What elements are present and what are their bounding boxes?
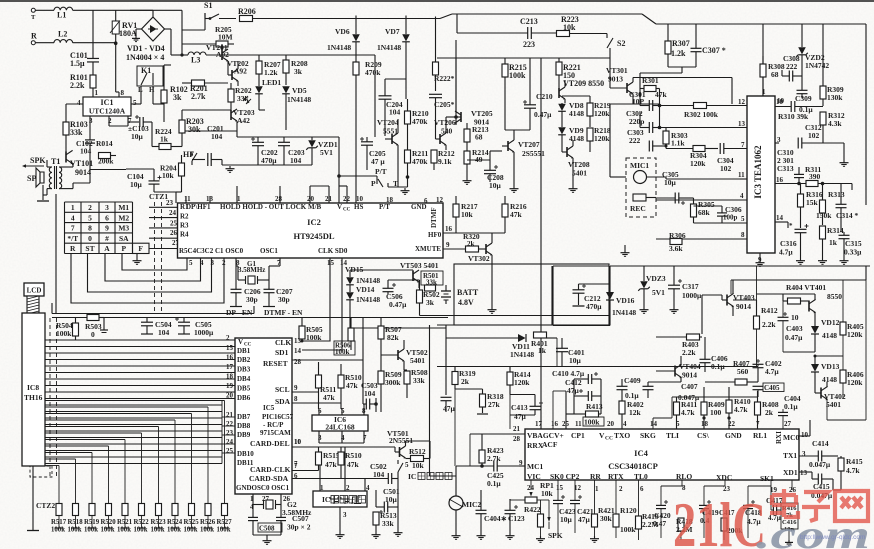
svg-text:9: 9 xyxy=(294,384,298,392)
wire pin26 xyxy=(791,480,793,490)
resistor R408 2k xyxy=(755,402,761,415)
svg-text:IC5: IC5 xyxy=(263,404,275,412)
ground xyxy=(822,258,824,261)
svg-text:DB10: DB10 xyxy=(237,450,254,458)
capacitor C408 47u xyxy=(441,396,452,398)
svg-text:3.6k: 3.6k xyxy=(669,244,683,253)
wire xyxy=(66,103,83,105)
resistor R120 100k xyxy=(613,514,619,527)
ground xyxy=(397,530,399,533)
svg-text:7: 7 xyxy=(71,224,75,233)
svg-text:R4: R4 xyxy=(180,231,189,239)
diode VD9 4148 xyxy=(558,127,566,134)
wire IC2 pin14 to IC5 SD1 xyxy=(302,258,342,350)
wire keypad col R to IC2 pin2 loop xyxy=(71,254,224,304)
svg-text:9014: 9014 xyxy=(736,302,751,311)
svg-text:470k: 470k xyxy=(412,117,428,126)
svg-text:200k: 200k xyxy=(98,157,114,166)
wire MIC line xyxy=(430,475,457,477)
resistor R312 4.3k xyxy=(820,112,826,125)
svg-text:21lC: 21lC xyxy=(673,489,766,549)
wire keypad col P to IC2 pin5 loop xyxy=(122,254,187,271)
wire MC0 to right xyxy=(799,435,810,437)
ground keypad F column xyxy=(136,254,138,259)
svg-text:300k: 300k xyxy=(385,378,401,387)
svg-text:1N4148: 1N4148 xyxy=(377,43,401,52)
capacitor C208 10u xyxy=(484,169,496,171)
svg-text:C404∗: C404∗ xyxy=(484,514,507,523)
svg-text:10: 10 xyxy=(791,313,799,322)
resistor R418 2.2M xyxy=(678,518,684,531)
svg-text:47 μ: 47 μ xyxy=(371,157,385,166)
wire IC2 pin11 stub xyxy=(185,196,187,203)
svg-text:CP1: CP1 xyxy=(571,431,585,440)
svg-text:VD12: VD12 xyxy=(821,318,840,327)
svg-text:F: F xyxy=(138,244,143,253)
svg-text:10P: 10P xyxy=(632,97,645,106)
capacitor C505 1000u xyxy=(178,321,190,323)
resistor R210 470k xyxy=(405,111,411,124)
svg-text:47k: 47k xyxy=(325,460,338,469)
capacitor C204 104 xyxy=(379,95,392,97)
svg-text:5401: 5401 xyxy=(410,356,425,365)
svg-text:4.7μ: 4.7μ xyxy=(779,248,793,257)
svg-text:C407: C407 xyxy=(681,382,698,391)
ground xyxy=(572,186,574,189)
wire socket pin3 xyxy=(339,507,341,532)
ground xyxy=(513,186,515,189)
resistor R502 3k xyxy=(417,290,423,303)
wire xyxy=(131,103,141,105)
capacitor C315 0.33u xyxy=(839,234,850,236)
svg-text:RR: RR xyxy=(590,472,601,481)
svg-text:68k: 68k xyxy=(698,208,711,217)
svg-text:TX1: TX1 xyxy=(783,451,797,460)
svg-text:100k: 100k xyxy=(335,348,350,356)
wire IC3 pin14 xyxy=(775,221,788,223)
svg-text:HS: HS xyxy=(354,203,363,211)
svg-text:C405: C405 xyxy=(764,384,780,392)
svg-text:1k: 1k xyxy=(538,346,547,355)
svg-text:1: 1 xyxy=(71,203,75,212)
svg-text:A42: A42 xyxy=(237,116,250,125)
svg-text:ST: ST xyxy=(85,244,94,253)
svg-text:0: 0 xyxy=(88,234,92,243)
svg-text:MC0: MC0 xyxy=(783,433,799,442)
svg-text:CARD-CLK: CARD-CLK xyxy=(250,465,291,474)
svg-text:L1: L1 xyxy=(57,11,66,20)
wire IC4 bottom pins xyxy=(530,480,532,483)
svg-text:47μ: 47μ xyxy=(443,404,456,413)
IC card socket glyphs xyxy=(330,496,338,504)
svg-text:P/T: P/T xyxy=(375,167,387,176)
svg-text:30p: 30p xyxy=(246,295,258,304)
wire xyxy=(92,10,94,57)
svg-text:2S5551: 2S5551 xyxy=(522,149,545,158)
svg-text:DP\HF1: DP\HF1 xyxy=(186,203,211,211)
svg-text:CC: CC xyxy=(605,436,613,442)
svg-text:GNDOSC0 OSC1: GNDOSC0 OSC1 xyxy=(236,484,290,492)
wire CARD-CLK xyxy=(292,470,319,472)
wire xyxy=(455,40,457,117)
svg-text:IC4: IC4 xyxy=(634,448,648,458)
ground xyxy=(375,532,377,535)
svg-text:S2: S2 xyxy=(617,39,625,48)
capacitor C316 4.7u xyxy=(795,228,807,230)
svg-text:10k: 10k xyxy=(541,489,554,498)
resistor R213 68 xyxy=(466,123,468,129)
svg-text:1N4148: 1N4148 xyxy=(356,276,380,285)
svg-text:10k: 10k xyxy=(162,171,175,180)
diode VD16 1N4148 xyxy=(606,292,614,300)
transistor VT208 5401 xyxy=(566,147,568,157)
svg-text:R413: R413 xyxy=(586,402,603,411)
svg-text:21: 21 xyxy=(513,425,521,433)
wire xyxy=(668,66,696,68)
svg-text:33k: 33k xyxy=(413,376,426,385)
svg-text:1N4148: 1N4148 xyxy=(356,295,380,304)
resistor R101 2.2k xyxy=(90,75,96,88)
svg-text:4148: 4148 xyxy=(569,134,584,143)
ground xyxy=(673,307,675,310)
svg-text:5: 5 xyxy=(189,259,193,267)
resistor R214 49 xyxy=(464,151,470,164)
svg-text:3: 3 xyxy=(105,203,109,212)
svg-text:68: 68 xyxy=(475,133,483,142)
svg-text:C410 4.7μ: C410 4.7μ xyxy=(552,369,585,378)
svg-text:R523: R523 xyxy=(151,519,167,526)
svg-text:C409: C409 xyxy=(624,376,641,385)
svg-text:10: 10 xyxy=(801,431,809,439)
svg-text:CSC34018CP: CSC34018CP xyxy=(608,461,658,471)
wire pin25 xyxy=(565,428,567,430)
ground xyxy=(266,538,268,541)
wire xyxy=(219,18,236,20)
svg-text:CTZ2: CTZ2 xyxy=(36,501,55,510)
resistor R221 150 xyxy=(556,62,562,75)
wire xyxy=(181,10,183,55)
resistor R406 120k xyxy=(840,370,846,383)
diode VD5 1N4148 xyxy=(282,86,290,93)
resistor R305 68k xyxy=(691,204,697,217)
svg-text:1N4148: 1N4148 xyxy=(510,350,534,359)
svg-text:104: 104 xyxy=(290,156,302,165)
transistor VT404 9014 xyxy=(674,366,676,377)
svg-text:REC: REC xyxy=(630,204,646,213)
capacitor C202 470u xyxy=(252,141,264,143)
svg-text:5V1: 5V1 xyxy=(320,148,333,157)
svg-text:5: 5 xyxy=(133,99,137,107)
svg-text:R: R xyxy=(70,244,76,253)
resistor R505 100k xyxy=(299,326,305,339)
svg-text:10k: 10k xyxy=(461,210,474,219)
svg-text:12: 12 xyxy=(738,98,746,106)
svg-text:1N4148: 1N4148 xyxy=(287,95,311,104)
svg-text:47μ: 47μ xyxy=(567,386,580,395)
svg-text:68: 68 xyxy=(771,70,779,79)
svg-text:5V1: 5V1 xyxy=(652,288,665,297)
svg-text:SD1: SD1 xyxy=(275,348,289,357)
svg-text:IC: IC xyxy=(322,495,330,504)
resistor R513 33k xyxy=(373,512,379,525)
ground xyxy=(788,540,790,542)
resistor R416 C416 xyxy=(781,503,798,529)
svg-text:11: 11 xyxy=(738,171,745,179)
svg-text:28: 28 xyxy=(513,435,521,443)
svg-text:R222*: R222* xyxy=(434,74,455,83)
svg-text:1: 1 xyxy=(237,195,241,203)
resistor R217 10k xyxy=(453,204,459,217)
svg-text:CS\: CS\ xyxy=(697,431,710,440)
svg-text:R302 100k: R302 100k xyxy=(684,110,719,119)
ground xyxy=(136,28,142,30)
svg-text:*/T: */T xyxy=(67,234,78,243)
svg-text:C309: C309 xyxy=(795,94,812,103)
svg-text:14: 14 xyxy=(776,214,784,222)
svg-text:47k: 47k xyxy=(655,90,668,99)
capacitor C415 0.047u xyxy=(817,474,819,485)
ground xyxy=(594,536,596,539)
svg-text:C508: C508 xyxy=(259,525,275,533)
svg-text:R526: R526 xyxy=(200,519,216,526)
wire xyxy=(43,194,47,196)
svg-text:6: 6 xyxy=(640,485,644,493)
svg-text:VBAGCV+: VBAGCV+ xyxy=(527,431,564,440)
svg-text:0.047μ: 0.047μ xyxy=(809,460,831,469)
ground xyxy=(339,532,341,535)
svg-text:4: 4 xyxy=(740,192,744,200)
ground xyxy=(509,533,511,536)
resistor R415 4.7k xyxy=(838,458,844,471)
wire xyxy=(237,136,339,138)
svg-text:5401: 5401 xyxy=(826,400,841,409)
resistor R316 15k xyxy=(798,194,804,207)
svg-text:R518: R518 xyxy=(68,519,84,526)
wire IC3 pin10 to C309 xyxy=(774,106,776,108)
svg-text:6: 6 xyxy=(424,197,428,205)
svg-text:0.1μ: 0.1μ xyxy=(487,479,501,488)
svg-text:20: 20 xyxy=(607,420,615,428)
watermark chinese dian xyxy=(770,489,798,517)
wire xyxy=(236,121,238,131)
wire IC2 pin13 stub xyxy=(209,196,211,203)
svg-text:SPK: SPK xyxy=(30,156,46,165)
svg-text:ACF: ACF xyxy=(542,440,558,449)
svg-text:XMUTE: XMUTE xyxy=(415,245,441,253)
wire IC8 data bus xyxy=(45,339,235,341)
svg-text:LCD: LCD xyxy=(27,287,42,295)
svg-text:SK1: SK1 xyxy=(760,474,774,483)
capacitor C403 0.47u 10 xyxy=(783,313,787,315)
svg-text:47k: 47k xyxy=(346,381,359,390)
svg-text:9014: 9014 xyxy=(682,371,697,380)
ground xyxy=(235,305,237,308)
wire xyxy=(89,169,91,170)
resistor R401 1k xyxy=(534,332,547,338)
svg-text:9: 9 xyxy=(105,224,109,233)
svg-text:MC1: MC1 xyxy=(527,462,543,471)
transistor VT302 xyxy=(485,244,487,254)
LCD hatch column xyxy=(27,296,39,313)
svg-text:1000μ: 1000μ xyxy=(682,291,702,300)
svg-text:14: 14 xyxy=(294,347,302,355)
resistor R313 150k xyxy=(820,200,826,213)
svg-text:SKG: SKG xyxy=(640,431,656,440)
svg-text:R527: R527 xyxy=(217,519,233,526)
svg-text:3: 3 xyxy=(777,136,781,144)
svg-text:11: 11 xyxy=(575,420,582,428)
svg-text:10: 10 xyxy=(356,195,364,203)
wire keypad row M1 to IC2 pin 23 xyxy=(149,206,178,208)
svg-text:DTMF - EN: DTMF - EN xyxy=(264,308,303,317)
resistor R421 30k xyxy=(592,514,598,527)
wire bus mid xyxy=(610,176,626,178)
wire xyxy=(489,151,491,160)
capacitor C205 47u xyxy=(361,141,373,143)
svg-text:R3: R3 xyxy=(180,222,189,230)
svg-text:27: 27 xyxy=(784,420,792,428)
svg-text:1: 1 xyxy=(95,89,99,97)
svg-text:15: 15 xyxy=(226,344,234,352)
svg-text:102: 102 xyxy=(808,131,820,140)
wire bus extras xyxy=(45,404,222,406)
svg-text:5: 5 xyxy=(88,213,92,222)
svg-text:1N4148: 1N4148 xyxy=(327,43,351,52)
svg-text:SA: SA xyxy=(119,234,129,243)
svg-text:T1: T1 xyxy=(51,157,60,166)
resistor R319 2k xyxy=(452,372,458,385)
svg-text:3k: 3k xyxy=(294,67,303,76)
wire xyxy=(73,42,116,44)
svg-text:SPK: SPK xyxy=(548,531,563,540)
capacitor C405 xyxy=(753,385,764,387)
capacitor C207 30p xyxy=(264,288,275,290)
svg-text:4.7k: 4.7k xyxy=(734,405,748,414)
resistor R222* xyxy=(433,62,439,75)
svg-text:470k: 470k xyxy=(365,68,381,77)
svg-text:10: 10 xyxy=(776,98,784,106)
svg-text:V: V xyxy=(238,338,243,346)
svg-text:100: 100 xyxy=(710,408,722,417)
svg-text:104: 104 xyxy=(364,389,376,398)
wire xyxy=(165,28,172,30)
svg-text:VIC: VIC xyxy=(527,472,541,481)
svg-text:M1: M1 xyxy=(118,203,129,212)
wire xyxy=(397,155,399,187)
svg-text:C403: C403 xyxy=(786,324,803,333)
transistor VT401 xyxy=(808,301,810,312)
svg-text:VD6: VD6 xyxy=(335,27,350,36)
resistor R215 100k xyxy=(502,64,508,77)
transistor VT101 9014 xyxy=(65,143,67,152)
svg-text:33k: 33k xyxy=(382,519,395,528)
resistor R202 33k xyxy=(228,89,234,102)
svg-text:100k: 100k xyxy=(509,71,526,80)
transistor VT202 A92 xyxy=(231,70,233,80)
svg-text:TLI: TLI xyxy=(666,431,679,440)
svg-text:47k: 47k xyxy=(323,393,336,402)
svg-text:150k: 150k xyxy=(816,211,832,220)
svg-text:T: T xyxy=(31,14,36,21)
svg-text:100k: 100k xyxy=(117,527,131,534)
svg-text:VT209 8550: VT209 8550 xyxy=(563,79,604,88)
svg-text:100k: 100k xyxy=(217,527,231,534)
wire from IC2 area down xyxy=(429,325,431,476)
wire card socket pins xyxy=(301,468,303,470)
svg-text:A92: A92 xyxy=(234,67,247,76)
svg-text:2.7k: 2.7k xyxy=(191,92,206,101)
svg-text:25: 25 xyxy=(562,420,570,428)
resistor R314 1k xyxy=(820,226,826,239)
svg-text:4: 4 xyxy=(71,213,75,222)
ground xyxy=(800,258,802,261)
svg-text:3: 3 xyxy=(343,511,347,519)
svg-text:DP - EN: DP - EN xyxy=(226,308,253,317)
capacitor C419 0.47 xyxy=(699,504,709,506)
svg-text:1N4742: 1N4742 xyxy=(805,61,829,70)
svg-text:13: 13 xyxy=(738,120,746,128)
svg-text:1N4004 × 4: 1N4004 × 4 xyxy=(126,53,164,62)
svg-text:R120: R120 xyxy=(620,506,637,515)
svg-text:VD16: VD16 xyxy=(616,296,635,305)
capacitor C103 10u xyxy=(128,121,139,123)
resistor R219 120k xyxy=(587,103,593,116)
svg-text:222: 222 xyxy=(786,62,798,71)
svg-text:1.2k: 1.2k xyxy=(264,68,278,77)
svg-text:C317: C317 xyxy=(682,282,699,291)
svg-text:0.33μ: 0.33μ xyxy=(844,248,862,257)
svg-text:R522: R522 xyxy=(134,519,150,526)
ground xyxy=(268,305,270,308)
node junction xyxy=(658,104,662,108)
svg-text:30p × 2: 30p × 2 xyxy=(287,523,311,532)
svg-text:30k: 30k xyxy=(600,514,613,523)
svg-text:22: 22 xyxy=(226,420,234,428)
svg-text:100k: 100k xyxy=(68,527,82,534)
svg-text:DTMF: DTMF xyxy=(430,207,438,228)
resistor R510b 47k xyxy=(338,452,344,465)
svg-text:DB5: DB5 xyxy=(237,385,251,393)
wire keypad row F to IC2 pin 27 xyxy=(149,248,178,250)
svg-text:SDA: SDA xyxy=(275,397,291,406)
svg-text:DB8: DB8 xyxy=(237,422,251,430)
resistor R507 82k xyxy=(378,326,384,339)
ground xyxy=(100,329,108,331)
wire MIC to IC3 xyxy=(647,176,667,178)
diode VD14 1N4148 xyxy=(346,292,354,299)
svg-text:11: 11 xyxy=(184,195,191,203)
svg-text:2: 2 xyxy=(619,485,623,493)
wire keypad row M2 to IC2 pin 24 xyxy=(149,217,178,219)
svg-text:7: 7 xyxy=(294,462,298,470)
svg-text:2.2k: 2.2k xyxy=(762,320,776,329)
svg-text:DB1: DB1 xyxy=(237,347,251,355)
svg-text:C314 *: C314 * xyxy=(836,211,859,220)
svg-text:13: 13 xyxy=(800,469,808,477)
transistor VT502 5401 xyxy=(397,350,399,360)
svg-text:24: 24 xyxy=(169,209,177,217)
resistor R414 120k xyxy=(507,372,513,385)
capacitor C506 0.47u xyxy=(383,287,394,289)
svg-text:1N4148: 1N4148 xyxy=(612,308,636,317)
svg-text:P: P xyxy=(121,244,126,253)
wire xyxy=(73,9,182,11)
svg-text:R301: R301 xyxy=(642,76,659,85)
svg-text:LED1: LED1 xyxy=(262,78,281,87)
watermark chinese zi xyxy=(802,492,830,521)
wire Vcc rail xyxy=(52,317,448,319)
ground xyxy=(843,160,845,163)
